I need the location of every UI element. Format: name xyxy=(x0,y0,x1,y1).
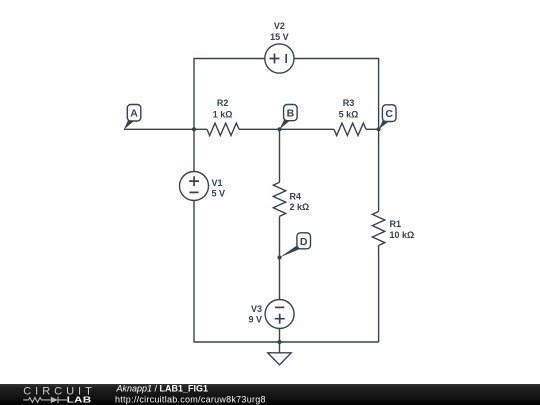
svg-text:V3: V3 xyxy=(251,304,262,314)
svg-text:5 kΩ: 5 kΩ xyxy=(339,110,359,120)
wire node A to R2 xyxy=(124,128,207,130)
svg-text:9 V: 9 V xyxy=(248,314,262,324)
V2 plus sign xyxy=(270,54,280,64)
resistor R2 zigzag xyxy=(207,123,239,135)
svg-text:R3: R3 xyxy=(343,98,355,108)
voltage source V1 circle xyxy=(180,172,209,201)
resistor R3 zigzag xyxy=(334,123,366,135)
svg-text:D: D xyxy=(300,236,308,248)
footer bar xyxy=(0,384,540,405)
V1 plus sign xyxy=(189,176,199,186)
ground symbol xyxy=(268,342,291,365)
V3 plus sign xyxy=(275,314,285,324)
svg-text:R1: R1 xyxy=(390,219,402,229)
wire V3 to bottom rail xyxy=(279,329,281,343)
label V3 value xyxy=(248,304,262,324)
resistor R1 zigzag xyxy=(372,212,384,246)
V1 minus sign xyxy=(190,191,199,193)
CircuitLab logo resistor-diode motif xyxy=(23,397,67,404)
label R2 value xyxy=(213,98,233,119)
svg-text:R2: R2 xyxy=(217,98,229,108)
wire V1 bottom to bottom-left corner and bottom rail xyxy=(194,200,379,342)
node flag A xyxy=(124,105,141,130)
svg-text:15 V: 15 V xyxy=(270,32,289,42)
label R3 value xyxy=(339,98,359,119)
wire R2 to node B to R3 xyxy=(239,128,334,130)
wire top-left from V2 to left rail down to V1 xyxy=(194,59,265,172)
wire R1 bottom to bottom rail xyxy=(378,246,380,343)
V3 minus sign xyxy=(275,306,284,308)
node flag B xyxy=(280,105,298,130)
voltage source V2 circle xyxy=(265,44,294,73)
svg-text:2 kΩ: 2 kΩ xyxy=(290,202,310,212)
label V2 value xyxy=(270,21,289,42)
junction at ground xyxy=(277,340,281,344)
voltage source V3 circle xyxy=(265,300,294,329)
node flag C xyxy=(379,105,396,130)
svg-text:C: C xyxy=(385,108,393,120)
junction at node C xyxy=(377,127,381,131)
V2 minus bar xyxy=(285,54,287,63)
wire R4 to V3 xyxy=(279,216,281,299)
svg-text:10 kΩ: 10 kΩ xyxy=(390,230,415,240)
svg-text:1 kΩ: 1 kΩ xyxy=(213,110,233,120)
svg-text:5 V: 5 V xyxy=(212,189,226,199)
svg-text:A: A xyxy=(130,108,138,120)
junction at node A column left rail xyxy=(192,127,196,131)
junction at node D xyxy=(277,255,281,259)
svg-text:V2: V2 xyxy=(274,21,285,31)
label R4 value xyxy=(290,192,310,213)
wire R3 to node C xyxy=(366,128,379,130)
svg-text:V1: V1 xyxy=(212,178,223,188)
node flag D xyxy=(280,233,311,258)
svg-text:http://circuitlab.com/caruw8k7: http://circuitlab.com/caruw8k73urg8 xyxy=(115,395,266,405)
label R1 value xyxy=(390,219,415,240)
svg-text:LAB: LAB xyxy=(67,396,92,405)
wire node B down to R4 xyxy=(279,129,281,182)
svg-text:Aknapp1 / LAB1_FIG1: Aknapp1 / LAB1_FIG1 xyxy=(116,383,209,393)
junction at node B xyxy=(277,127,281,131)
label V1 value xyxy=(212,178,226,198)
resistor R4 zigzag xyxy=(273,182,285,216)
wire top-right from V2 to right rail down to R1 xyxy=(294,59,379,212)
svg-text:R4: R4 xyxy=(290,192,302,202)
svg-text:B: B xyxy=(287,108,295,120)
